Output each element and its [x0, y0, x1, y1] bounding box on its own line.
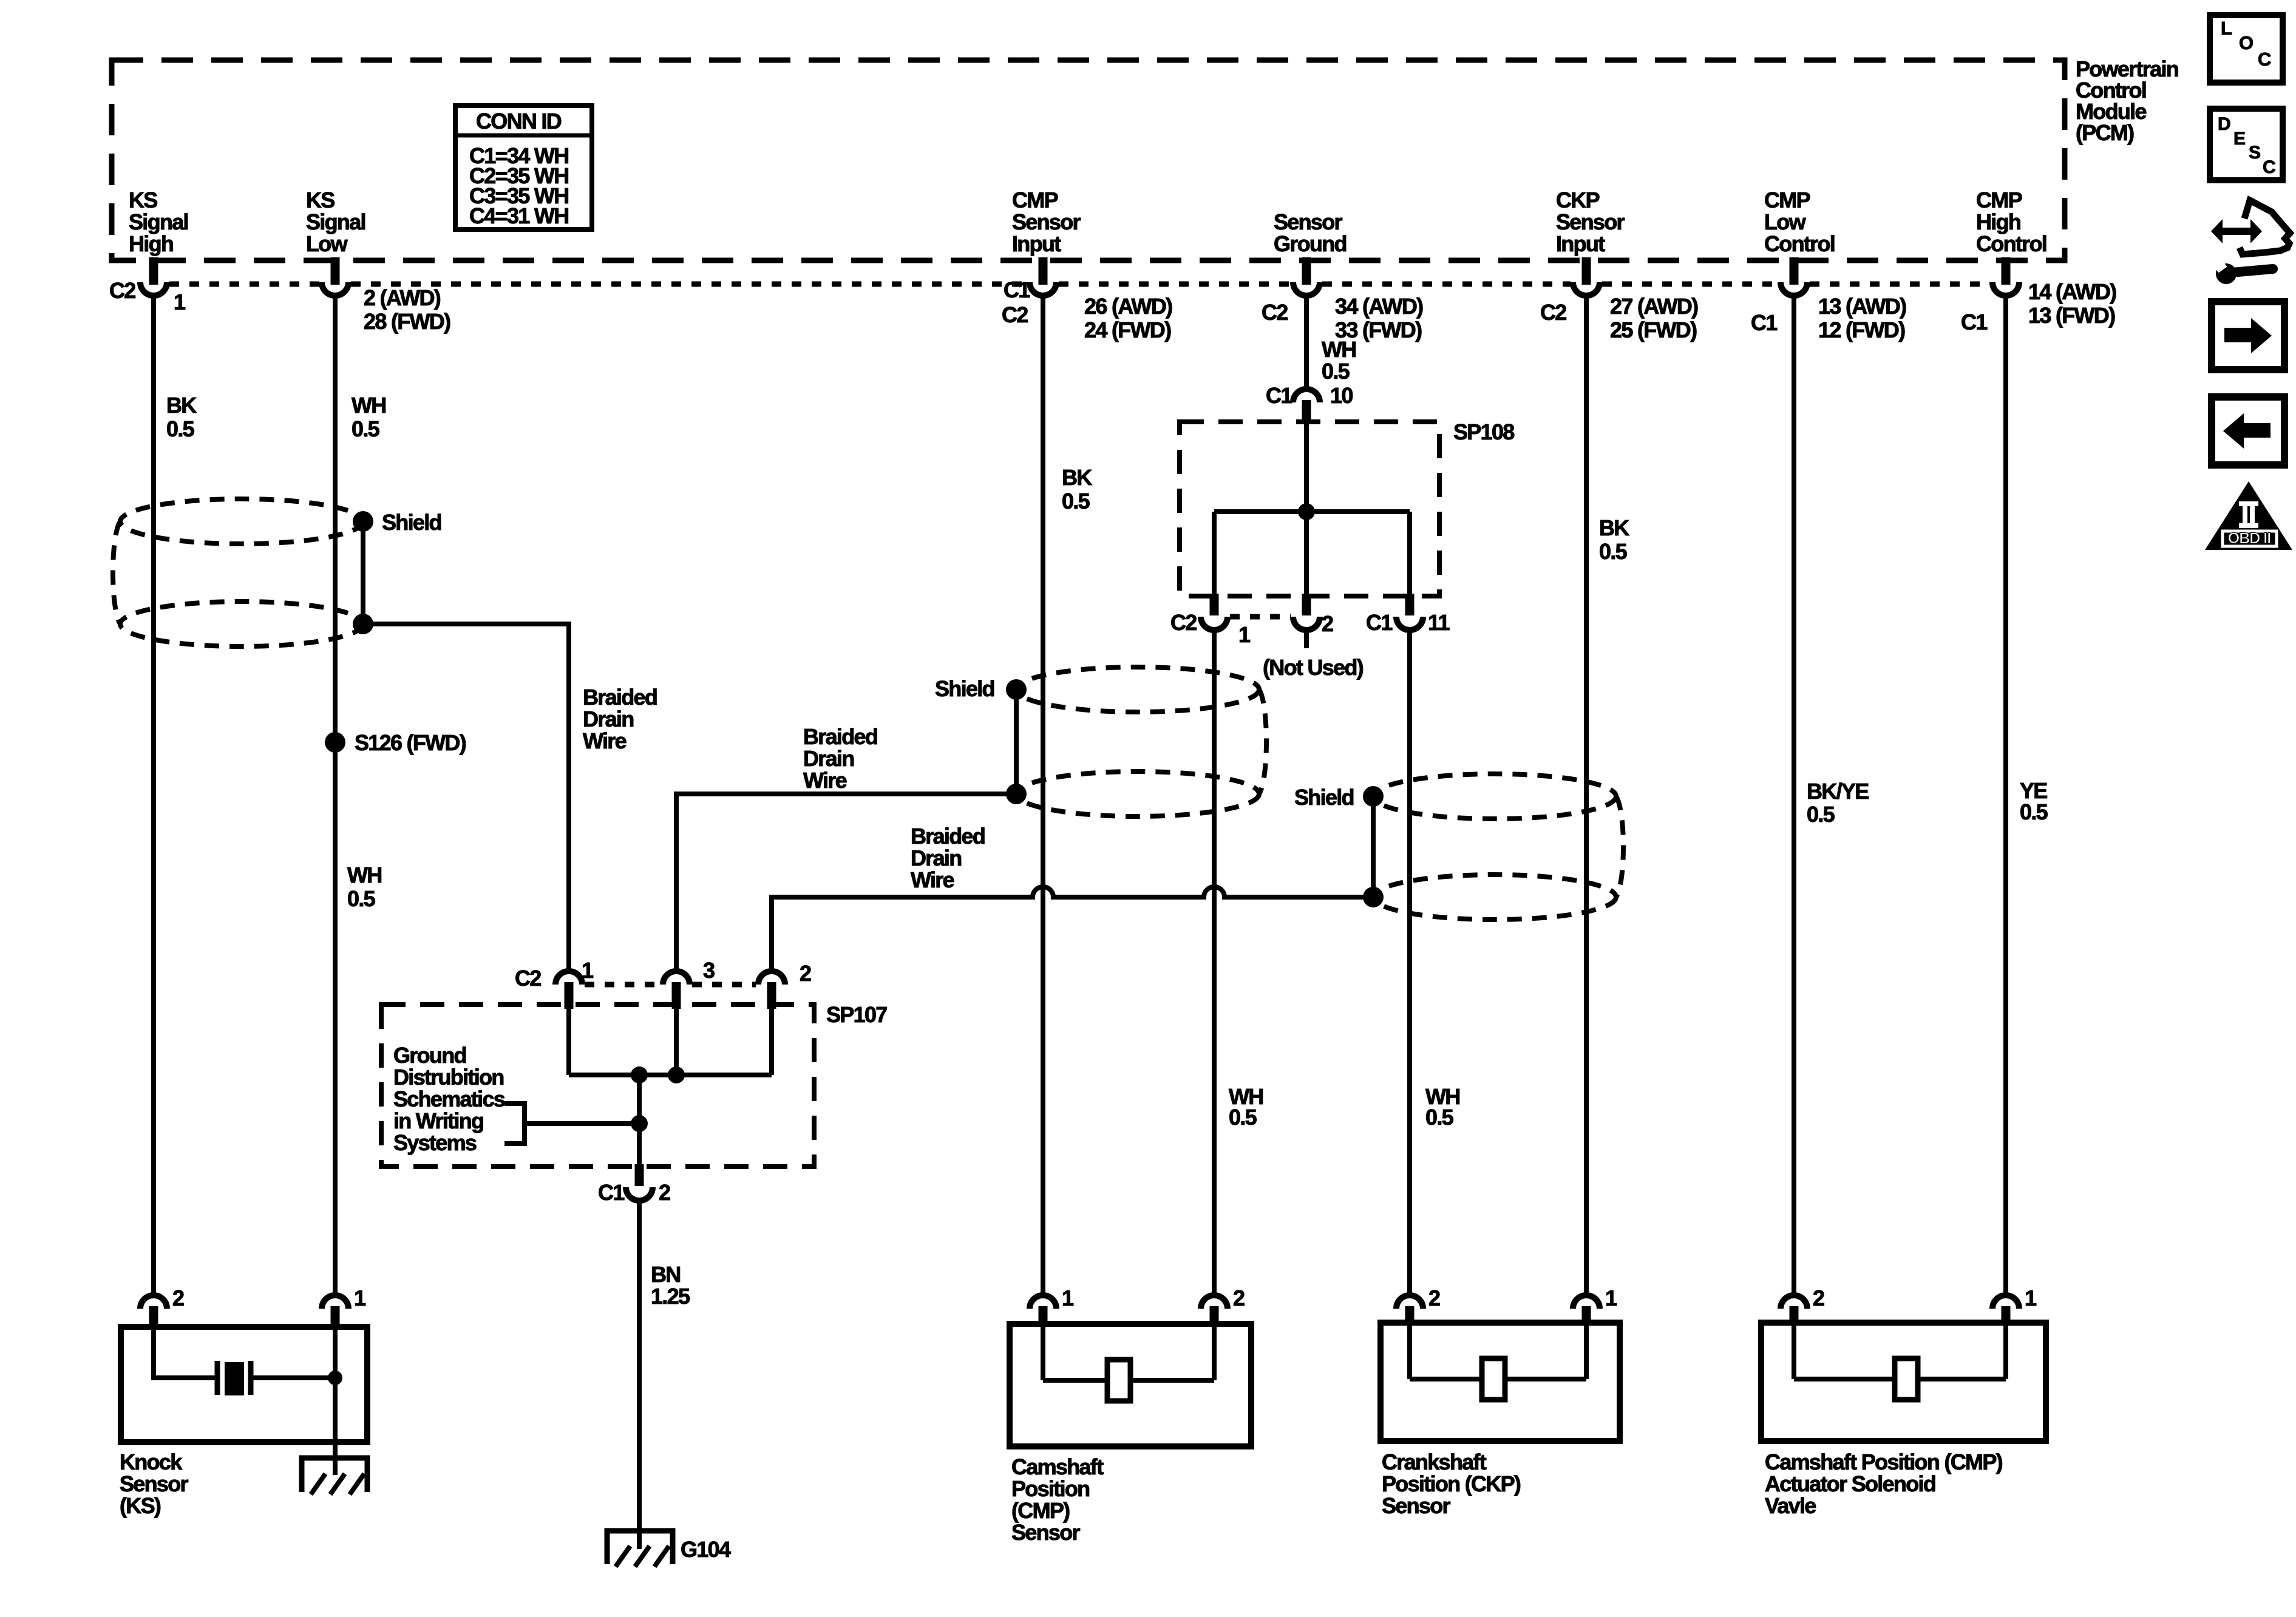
svg-text:0.5: 0.5 [1807, 802, 1835, 827]
svg-text:BN: BN [651, 1262, 681, 1287]
svg-text:C2: C2 [109, 278, 135, 303]
CMP sensor connector pin 1 dome [1030, 1295, 1056, 1309]
CKP shield cylinder bottom ellipse [1373, 875, 1616, 920]
CKP sensor connector pin 2 dome [1396, 1295, 1423, 1309]
SP108 right leg [1407, 512, 1412, 596]
CMP actuator connector pin 2 dome [1781, 1295, 1807, 1309]
svg-text:0.5: 0.5 [2020, 799, 2048, 824]
svg-text:0.5: 0.5 [1599, 539, 1628, 564]
svg-text:Position (CKP): Position (CKP) [1382, 1471, 1521, 1496]
svg-text:C1: C1 [598, 1180, 625, 1205]
svg-text:CMP: CMP [1764, 188, 1810, 212]
CKP sensor connector pin 1 dome [1573, 1295, 1600, 1309]
svg-text:CMP: CMP [1012, 188, 1058, 212]
SP107 connector 2 dome [758, 971, 785, 985]
svg-text:1: 1 [2025, 1286, 2037, 1310]
diagnostic hand icon double arrow [2211, 219, 2262, 243]
svg-text:0.5: 0.5 [1425, 1105, 1454, 1130]
svg-text:Input: Input [1012, 231, 1061, 256]
svg-text:Drain: Drain [583, 707, 634, 731]
svg-text:11: 11 [1428, 610, 1450, 635]
svg-text:0.5: 0.5 [347, 886, 376, 911]
svg-text:E: E [2233, 129, 2246, 149]
SP107 right leg wire [769, 1005, 774, 1075]
svg-text:0.5: 0.5 [1322, 359, 1350, 384]
svg-text:1.25: 1.25 [651, 1284, 690, 1309]
KS inner junction dot [328, 1371, 342, 1385]
svg-text:Crankshaft: Crankshaft [1382, 1449, 1487, 1474]
svg-text:Control: Control [1976, 231, 2046, 256]
svg-text:0.5: 0.5 [1229, 1105, 1257, 1130]
wire CMP High Control (YE 0.5) [2003, 296, 2008, 1295]
svg-text:Shield: Shield [382, 510, 441, 535]
svg-text:D: D [2218, 114, 2231, 134]
CKP sensor box [1381, 1323, 1620, 1441]
SP107 down wire [637, 1075, 642, 1167]
svg-text:3: 3 [703, 958, 715, 983]
svg-text:Drain: Drain [803, 746, 854, 771]
diagnostic hand icon outline [2240, 200, 2290, 254]
SP108 inner bus [1214, 509, 1410, 514]
svg-text:C4=31 WH: C4=31 WH [469, 203, 568, 228]
CKP shield cylinder right side [1616, 796, 1623, 897]
svg-text:Sensor: Sensor [1274, 209, 1343, 234]
back arrow icon [2223, 413, 2271, 449]
KS shield node dot upper [353, 511, 373, 532]
svg-text:2: 2 [172, 1286, 184, 1310]
svg-text:24 (FWD): 24 (FWD) [1084, 317, 1171, 342]
svg-text:BK/YE: BK/YE [1807, 779, 1869, 804]
SP107 bracket junction dot [631, 1115, 648, 1132]
DESC icon box [2210, 109, 2283, 180]
KS connector pin 1 dome [322, 1295, 348, 1309]
SP108 inner wire [1304, 422, 1309, 596]
KS ground symbol [302, 1458, 367, 1492]
KS shield node dot lower [353, 614, 373, 634]
svg-text:Schematics: Schematics [393, 1086, 505, 1111]
SP107 left leg wire [566, 1005, 571, 1075]
svg-text:Braided: Braided [803, 724, 877, 749]
SP108 left leg [1212, 512, 1217, 596]
svg-text:High: High [1976, 209, 2020, 234]
svg-text:C2: C2 [1170, 610, 1197, 635]
CKP shield link wire [1371, 796, 1376, 897]
svg-text:S: S [2249, 143, 2261, 163]
svg-text:C2: C2 [1262, 300, 1288, 325]
KS connector pin 2 dome [140, 1295, 167, 1309]
svg-text:13 (FWD): 13 (FWD) [2028, 303, 2115, 328]
CONN ID title separator [455, 134, 592, 138]
svg-text:SP107: SP107 [826, 1002, 887, 1027]
SP107 bus junction dot right [668, 1066, 685, 1083]
svg-text:Control: Control [1764, 231, 1835, 256]
wire SP108 C1-11 to CKP sensor (WH 0.5) [1407, 630, 1412, 1297]
Powertrain Control Module (PCM) dashed box [112, 60, 2065, 260]
ground G104 symbol [607, 1531, 673, 1564]
svg-text:WH: WH [1322, 337, 1356, 362]
svg-text:25 (FWD): 25 (FWD) [1610, 317, 1697, 342]
svg-text:1: 1 [174, 290, 186, 314]
CMP sensor coil rect [1107, 1360, 1130, 1401]
svg-text:SP108: SP108 [1453, 419, 1514, 444]
PCM pin connector CKP Sensor Input [1582, 257, 1591, 285]
CMP shield node dot upper [1006, 679, 1027, 700]
svg-text:Sensor: Sensor [1012, 209, 1081, 234]
CKP sensor inner circuit [1407, 1323, 1412, 1379]
svg-text:1: 1 [1605, 1286, 1617, 1310]
CMP actuator inner circuit [1792, 1323, 1796, 1379]
svg-text:C2: C2 [1540, 300, 1566, 325]
svg-text:34 (AWD): 34 (AWD) [1335, 294, 1423, 319]
SP108 not-used stub [1304, 630, 1309, 648]
KS shield cylinder left side [113, 521, 120, 624]
svg-text:Drain: Drain [911, 846, 962, 870]
PCM pin connector CMP High Control [2002, 257, 2011, 285]
svg-text:Signal: Signal [306, 209, 365, 234]
KS inner wire right [252, 1375, 335, 1380]
SP108 connector C2-1 [1210, 594, 1219, 615]
wire CMP Sensor Input (BK 0.5) [1041, 296, 1045, 1297]
svg-text:BK: BK [1062, 465, 1092, 490]
svg-text:1: 1 [1238, 622, 1251, 647]
KS piezo crystal [225, 1362, 244, 1395]
svg-text:C2: C2 [1002, 302, 1028, 327]
CMP actuator connector pin 1 dome [1992, 1295, 2019, 1309]
svg-text:S126 (FWD): S126 (FWD) [355, 730, 466, 755]
KS shield cylinder top ellipse [120, 499, 363, 544]
svg-text:(PCM): (PCM) [2076, 120, 2134, 145]
svg-text:Shield: Shield [935, 676, 994, 701]
forward arrow icon [2224, 318, 2272, 353]
svg-text:C1: C1 [1004, 277, 1030, 302]
svg-text:Signal: Signal [129, 209, 188, 234]
PCM pin connector CMP Sensor Input [1039, 257, 1048, 285]
svg-text:Camshaft Position (CMP): Camshaft Position (CMP) [1765, 1449, 2003, 1474]
svg-text:Ground: Ground [1274, 231, 1347, 256]
CMP sensor box [1010, 1324, 1251, 1446]
SP107 connector 3 dome [663, 971, 690, 985]
wire Sensor Ground upper (WH 0.5) [1304, 296, 1309, 389]
LOC icon box [2210, 15, 2283, 83]
svg-text:C1: C1 [1751, 310, 1778, 335]
svg-text:C: C [2258, 49, 2271, 70]
svg-text:C1: C1 [1366, 610, 1393, 635]
KS piezo element plates [215, 1361, 220, 1395]
wire CMP Low Control (BK/YE 0.5) [1792, 296, 1796, 1295]
CKP shield node dot lower [1363, 887, 1384, 907]
svg-text:O: O [2239, 32, 2254, 53]
svg-text:2: 2 [1428, 1286, 1440, 1310]
wire CKP Sensor Input (BK 0.5) [1584, 296, 1589, 1295]
svg-text:OBD II: OBD II [2228, 530, 2271, 547]
svg-text:Ground: Ground [393, 1043, 466, 1068]
CMP shield link wire [1014, 690, 1019, 794]
svg-text:Low: Low [1764, 209, 1807, 234]
SP107 connector row dotted line [585, 982, 661, 988]
svg-text:10: 10 [1330, 383, 1353, 408]
braided drain wire 3 [772, 887, 1373, 971]
braided drain wire 2 [676, 794, 1016, 971]
svg-text:27 (AWD): 27 (AWD) [1610, 294, 1698, 319]
svg-text:(KS): (KS) [120, 1493, 161, 1518]
svg-text:Vavle: Vavle [1765, 1493, 1816, 1518]
CMP actuator box [1761, 1323, 2046, 1441]
svg-text:CMP: CMP [1976, 188, 2022, 212]
svg-text:2: 2 [1322, 611, 1333, 636]
svg-text:Braided: Braided [583, 685, 657, 710]
svg-text:KS: KS [306, 188, 335, 212]
svg-text:0.5: 0.5 [1062, 489, 1090, 514]
svg-text:Wire: Wire [911, 867, 954, 892]
svg-text:G104: G104 [681, 1537, 731, 1562]
CONN ID table box [455, 106, 592, 229]
PCM pin connector KS Signal Low [331, 257, 340, 285]
svg-text:CONN ID: CONN ID [476, 109, 562, 134]
svg-text:Low: Low [306, 231, 348, 256]
svg-text:C: C [2263, 157, 2276, 177]
back arrow icon box [2212, 397, 2284, 465]
svg-text:C1: C1 [1961, 310, 1988, 334]
svg-text:Distrubition: Distrubition [393, 1065, 504, 1090]
SP107 connector C2-1 dome [555, 971, 582, 985]
svg-text:14 (AWD): 14 (AWD) [2028, 279, 2116, 304]
svg-text:Actuator Solenoid: Actuator Solenoid [1765, 1471, 1935, 1496]
svg-text:WH: WH [352, 393, 386, 418]
SP108 connector C1-11 [1405, 594, 1415, 615]
svg-text:Braided: Braided [911, 824, 985, 849]
SP107 middle leg wire [674, 1005, 679, 1075]
svg-text:Input: Input [1556, 231, 1605, 256]
svg-text:CKP: CKP [1556, 188, 1600, 212]
svg-text:Systems: Systems [393, 1130, 477, 1155]
svg-text:0.5: 0.5 [352, 416, 380, 441]
svg-text:1: 1 [582, 958, 594, 983]
KS shield cylinder bottom ellipse [120, 602, 363, 646]
svg-text:WH: WH [347, 863, 382, 887]
SP107 bracket wire [525, 1121, 639, 1126]
CKP shield cylinder top ellipse [1373, 774, 1616, 819]
svg-text:2 (AWD): 2 (AWD) [364, 285, 441, 310]
CMP sensor inner circuit [1041, 1324, 1045, 1380]
PCM pin connector CMP Low Control [1790, 257, 1799, 285]
svg-text:KS: KS [129, 188, 157, 212]
connector C1-10 dome [1293, 389, 1320, 402]
wire KS Signal Low (WH 0.5) [333, 296, 338, 1297]
wire BN 1.25 to G104 [637, 1201, 642, 1549]
svg-text:L: L [2221, 18, 2232, 39]
svg-text:Sensor: Sensor [1011, 1520, 1081, 1545]
svg-text:13 (AWD): 13 (AWD) [1818, 294, 1906, 319]
SP107 bus junction dot left [631, 1066, 648, 1083]
SP108 connector 2 (not used) [1302, 594, 1311, 615]
svg-text:Knock: Knock [120, 1449, 183, 1474]
CKP sensor coil rect [1482, 1358, 1505, 1400]
svg-text:BK: BK [166, 393, 197, 418]
CKP shield node dot upper [1363, 786, 1384, 807]
CMP shield cylinder top ellipse [1016, 667, 1259, 712]
svg-text:2: 2 [1233, 1286, 1245, 1310]
SP107 text bracket [504, 1103, 525, 1144]
wire SP108 C2-1 to CMP sensor (WH 0.5) [1212, 630, 1217, 1297]
svg-text:in Writing: in Writing [393, 1108, 483, 1133]
CMP shield cylinder right side [1259, 690, 1266, 794]
KS inner wire left [154, 1327, 216, 1378]
KS inner ground wire [333, 1327, 338, 1475]
SP108 dashed box [1180, 422, 1439, 596]
svg-text:C1: C1 [1266, 383, 1292, 408]
svg-text:1: 1 [354, 1286, 366, 1310]
svg-text:12 (FWD): 12 (FWD) [1818, 317, 1905, 342]
svg-text:2: 2 [800, 961, 811, 986]
svg-text:Wire: Wire [803, 768, 847, 793]
splice S126 (FWD) dot [325, 732, 345, 753]
CMP sensor connector pin 2 dome [1201, 1295, 1228, 1309]
svg-text:28 (FWD): 28 (FWD) [364, 309, 450, 334]
svg-text:1: 1 [1062, 1286, 1074, 1310]
PCM pin connector Sensor Ground [1302, 257, 1311, 285]
braided drain wire 1 [363, 624, 569, 971]
svg-text:(CMP): (CMP) [1011, 1498, 1070, 1523]
SP107 bus [569, 1073, 772, 1077]
wire KS Signal High (BK 0.5) [151, 296, 156, 1297]
SP108 connector row dotted line [1230, 614, 1291, 620]
PCM pin connector KS Signal High [149, 257, 158, 285]
svg-text:Position: Position [1011, 1476, 1089, 1501]
svg-text:Shield: Shield [1294, 785, 1354, 810]
svg-text:Sensor: Sensor [1556, 209, 1625, 234]
svg-text:0.5: 0.5 [166, 416, 195, 441]
svg-text:26 (AWD): 26 (AWD) [1084, 294, 1172, 319]
forward arrow icon box [2212, 302, 2284, 370]
svg-text:Wire: Wire [583, 728, 627, 753]
svg-text:Sensor: Sensor [120, 1471, 189, 1496]
svg-text:Sensor: Sensor [1382, 1493, 1451, 1518]
SP107 dashed box [381, 1005, 814, 1167]
CMP shield cylinder bottom ellipse [1016, 771, 1259, 816]
OBD II triangle icon [2205, 481, 2292, 550]
PCM connector row dotted line [169, 282, 319, 287]
diagnostic wrench icon [2232, 269, 2273, 273]
CMP actuator coil rect [1895, 1358, 1918, 1400]
CMP shield node dot lower [1006, 784, 1027, 804]
svg-text:BK: BK [1599, 515, 1629, 540]
SP108 junction dot [1298, 503, 1315, 520]
svg-text:2: 2 [1813, 1286, 1824, 1310]
svg-text:C2: C2 [515, 966, 541, 991]
svg-text:2: 2 [659, 1180, 670, 1205]
Knock Sensor box [121, 1327, 367, 1442]
SP107 connector C1-2 [635, 1164, 644, 1186]
svg-text:Camshaft: Camshaft [1011, 1454, 1104, 1479]
svg-text:(Not Used): (Not Used) [1263, 655, 1364, 680]
svg-text:High: High [129, 231, 173, 256]
KS shield link wire [361, 521, 365, 624]
